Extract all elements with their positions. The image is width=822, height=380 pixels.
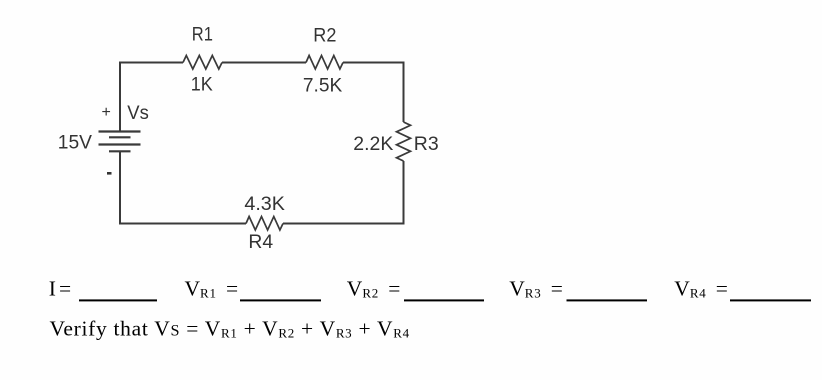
wire: R3 down to bottom-right corner and left to R4 [283,161,404,224]
svg-text:R3: R3 [414,134,439,155]
svg-text:I=: I= [49,277,74,301]
blank line for VR2 [404,299,484,301]
blank line for I [79,299,157,301]
svg-text:1K: 1K [191,75,213,96]
battery Vs (15V), four plates: long-short-long-short [99,132,141,152]
svg-text:R2: R2 [313,26,336,47]
svg-text:VR4 =: VR4 = [674,277,728,301]
svg-text:4.3K: 4.3K [244,194,285,215]
svg-text:2.2K: 2.2K [353,134,393,155]
blank line for VR4 [730,299,811,301]
svg-text:Verify that VS = VR1 + VR2 + V: Verify that VS = VR1 + VR2 + VR3 + VR4 [50,317,410,341]
wire: top-left corner to resistor R1 [119,62,183,64]
wire: R4 to bottom-left corner up to battery - terminal [120,151,246,223]
resistor R2 zigzag [306,56,343,70]
wire: R2 to top-right corner down to R3 [343,63,404,123]
svg-text:Vs: Vs [127,103,149,124]
resistor R3 zigzag (vertical) [397,122,411,161]
blank line for VR1 [240,299,321,301]
svg-text:R1: R1 [192,25,213,46]
resistor R1 zigzag [183,56,222,70]
svg-text:VR1 =: VR1 = [185,277,239,301]
svg-text:R4: R4 [248,232,273,253]
wire: R1 to R2 [222,62,306,64]
resistor R4 zigzag [246,217,283,231]
svg-text:VR2 =: VR2 = [347,277,401,301]
svg-text:15V: 15V [58,133,92,154]
svg-text:+: + [102,104,111,121]
svg-text:7.5K: 7.5K [303,76,342,97]
polarity - sign at battery bottom [107,172,112,175]
blank line for VR3 [567,299,648,301]
svg-text:VR3 =: VR3 = [509,277,563,301]
wire: left vertical from battery + terminal up to top-left corner [119,63,121,132]
